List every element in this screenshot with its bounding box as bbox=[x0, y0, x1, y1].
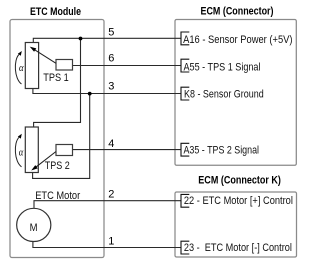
svg-text:TPS 2: TPS 2 bbox=[45, 160, 70, 172]
pin bracket A55 bbox=[181, 59, 189, 72]
svg-text:TPS 1: TPS 1 bbox=[43, 72, 69, 84]
svg-text:ECM (Connector): ECM (Connector) bbox=[201, 5, 274, 17]
TPS2 rotation arc bbox=[15, 137, 21, 167]
svg-text:A35 - TPS 2 Signal: A35 - TPS 2 Signal bbox=[184, 145, 260, 157]
ETC Module box bbox=[10, 20, 104, 258]
wire pin3: TPS1 bottom to K8 bbox=[33, 88, 181, 93]
TPS1 rotation arc bbox=[15, 55, 21, 85]
svg-text:M: M bbox=[30, 222, 38, 234]
wire: ground branch down to TPS2 bottom bbox=[33, 94, 90, 179]
pin bracket 23 bbox=[181, 241, 189, 254]
pin bracket A16 bbox=[181, 32, 189, 45]
svg-text:ETC Motor: ETC Motor bbox=[35, 190, 80, 202]
resistor TPS1 body bbox=[25, 43, 38, 89]
svg-text:A16 - Sensor Power (+5V): A16 - Sensor Power (+5V) bbox=[183, 34, 292, 46]
pin bracket 22 bbox=[181, 194, 189, 207]
TPS1 wiper terminal box bbox=[56, 60, 73, 71]
svg-text:23 - ETC Motor [-] Control: 23 - ETC Motor [-] Control bbox=[184, 242, 292, 254]
svg-text:ETC Module: ETC Module bbox=[30, 6, 81, 18]
svg-text:K8 - Sensor Ground: K8 - Sensor Ground bbox=[184, 89, 264, 101]
svg-text:5: 5 bbox=[108, 27, 114, 39]
junction node +5V bbox=[79, 37, 83, 41]
svg-text:α: α bbox=[19, 63, 24, 74]
pin bracket K8 bbox=[181, 87, 189, 100]
wire pin6: TPS1 wiper to A55 bbox=[73, 65, 182, 67]
TPS2 wiper arrow bbox=[36, 152, 56, 168]
svg-text:4: 4 bbox=[108, 138, 114, 150]
wire pin1: motor bottom to 23 bbox=[33, 242, 181, 248]
wire pin2: motor top to 22 bbox=[34, 201, 181, 208]
TPS2 wiper terminal box bbox=[56, 145, 73, 156]
TPS1 wiper arrow bbox=[35, 50, 57, 64]
ECM (Connector) box bbox=[175, 20, 296, 166]
svg-text:ECM (Connector K): ECM (Connector K) bbox=[198, 175, 281, 187]
svg-text:2: 2 bbox=[108, 188, 114, 200]
pin bracket A35 bbox=[181, 143, 189, 156]
resistor TPS2 body bbox=[25, 127, 38, 173]
wire pin4: TPS2 wiper to A35 bbox=[73, 149, 182, 151]
ECM (Connector K) box bbox=[175, 192, 297, 257]
motor M1 circle bbox=[17, 208, 51, 241]
svg-text:6: 6 bbox=[108, 53, 114, 65]
wire: +5V branch down to TPS2 top bbox=[34, 38, 81, 127]
svg-text:1: 1 bbox=[108, 235, 114, 247]
svg-text:22 - ETC Motor [+] Control: 22 - ETC Motor [+] Control bbox=[184, 195, 293, 207]
junction node ground bbox=[88, 92, 92, 96]
svg-text:A55 - TPS 1 Signal: A55 - TPS 1 Signal bbox=[184, 61, 261, 73]
wire pin5: TPS1 top to A16 bbox=[33, 38, 181, 42]
svg-text:α: α bbox=[19, 148, 24, 159]
svg-text:3: 3 bbox=[108, 80, 114, 92]
